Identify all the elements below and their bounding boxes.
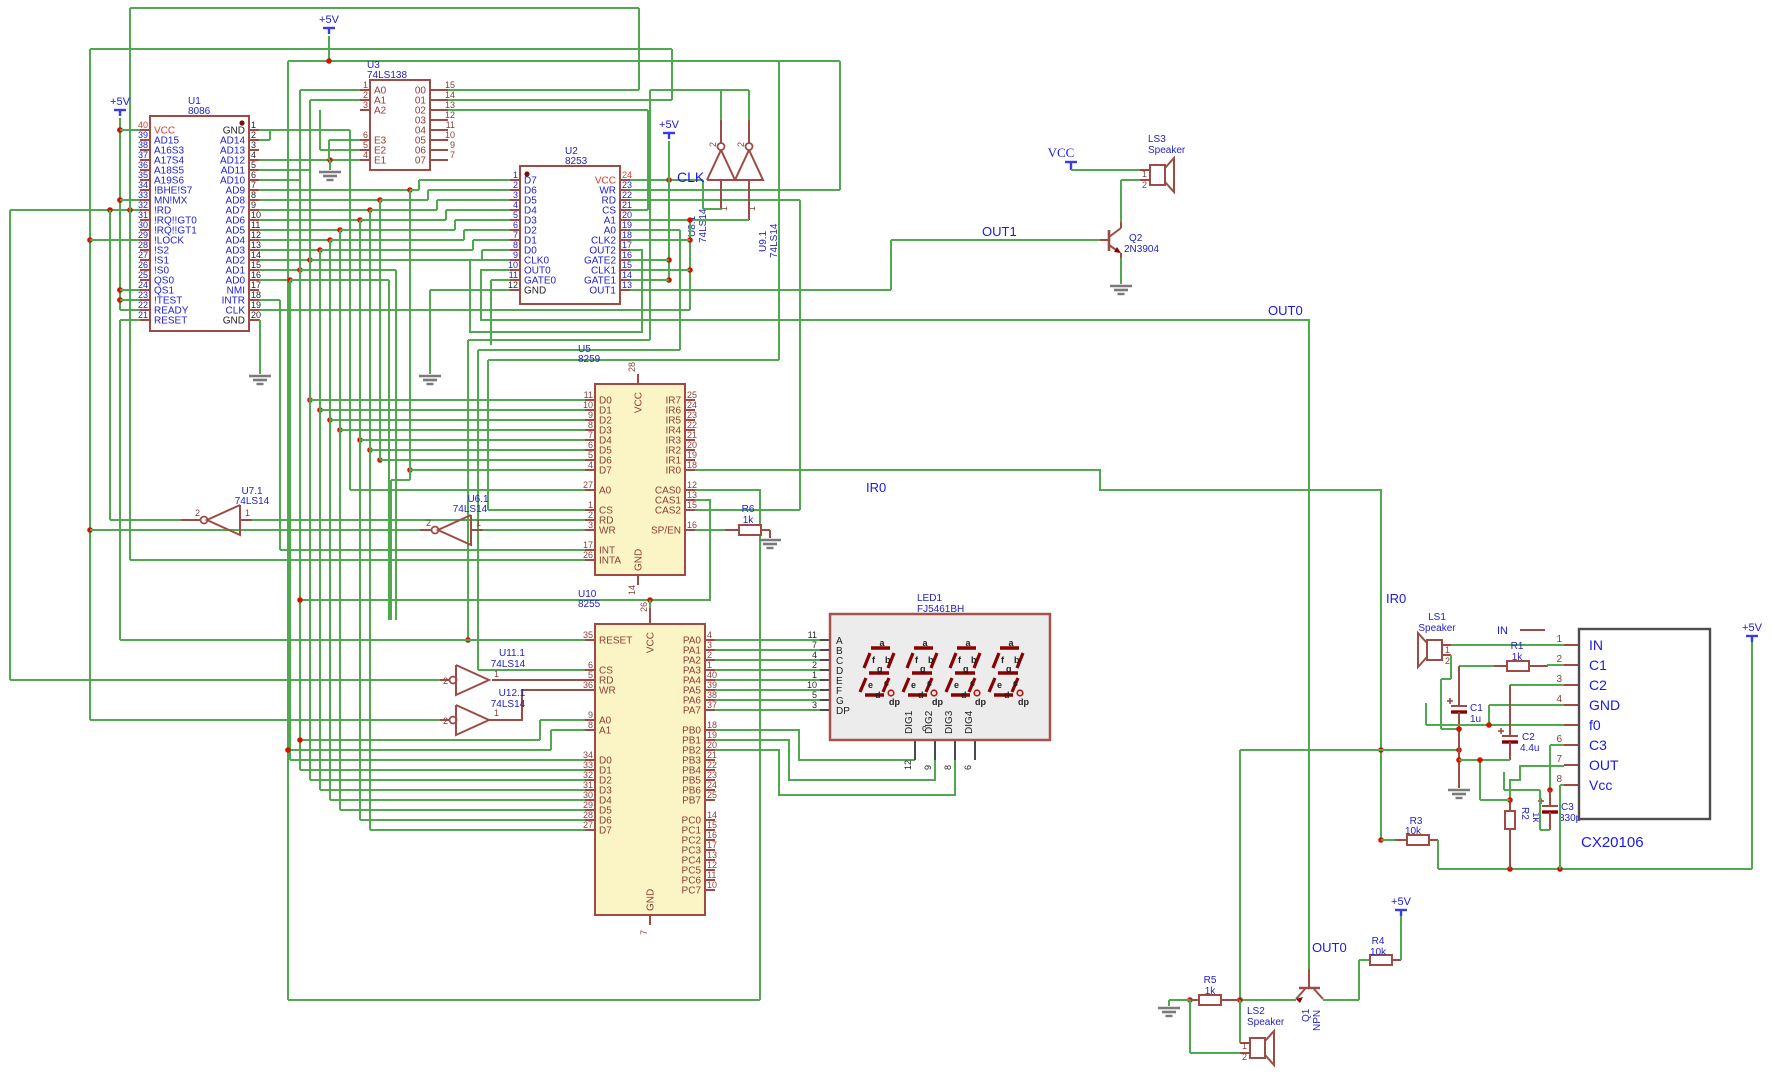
svg-text:+5V: +5V [659, 119, 680, 131]
svg-text:e: e [868, 680, 873, 690]
svg-text:RESET: RESET [599, 636, 632, 647]
svg-text:U9.1: U9.1 [758, 230, 769, 252]
svg-text:31: 31 [138, 210, 148, 220]
svg-text:CLK: CLK [677, 169, 705, 185]
svg-text:3: 3 [513, 190, 518, 200]
svg-text:U11.1: U11.1 [499, 648, 525, 659]
svg-text:IN: IN [1589, 637, 1603, 653]
svg-text:21: 21 [138, 310, 148, 320]
svg-text:+5V: +5V [1742, 622, 1763, 634]
svg-text:3: 3 [812, 700, 817, 710]
svg-text:5: 5 [588, 670, 593, 680]
svg-text:GND: GND [524, 286, 546, 297]
svg-text:2: 2 [707, 650, 712, 660]
svg-text:d: d [875, 690, 881, 700]
svg-text:8: 8 [943, 765, 953, 770]
svg-text:34: 34 [583, 750, 593, 760]
svg-text:c: c [970, 678, 975, 688]
svg-text:VCC: VCC [646, 632, 657, 653]
svg-text:R2: R2 [1519, 807, 1530, 820]
svg-text:21: 21 [622, 200, 632, 210]
svg-text:33: 33 [583, 760, 593, 770]
svg-text:2: 2 [588, 510, 593, 520]
svg-text:LED1: LED1 [917, 593, 942, 604]
svg-text:OUT1: OUT1 [589, 286, 616, 297]
svg-text:f0: f0 [1589, 717, 1601, 733]
svg-text:24: 24 [707, 780, 717, 790]
svg-text:c: c [922, 723, 927, 733]
svg-text:26: 26 [138, 260, 148, 270]
svg-text:c: c [884, 678, 889, 688]
svg-text:7: 7 [812, 640, 817, 650]
svg-text:OUT0: OUT0 [1268, 303, 1303, 318]
svg-text:LS2: LS2 [1247, 1006, 1265, 1017]
svg-text:12: 12 [707, 860, 717, 870]
svg-text:20: 20 [687, 440, 697, 450]
svg-text:27: 27 [583, 480, 593, 490]
svg-text:26: 26 [583, 550, 593, 560]
svg-text:IR0: IR0 [665, 466, 681, 477]
svg-text:DIG3: DIG3 [944, 710, 955, 734]
svg-text:23: 23 [622, 180, 632, 190]
svg-text:23: 23 [707, 770, 717, 780]
svg-text:b: b [971, 655, 977, 665]
svg-text:27: 27 [138, 250, 148, 260]
svg-text:38: 38 [707, 690, 717, 700]
svg-text:Speaker: Speaker [1247, 1017, 1285, 1028]
svg-text:2: 2 [1142, 180, 1147, 190]
svg-text:39: 39 [138, 130, 148, 140]
svg-text:13: 13 [622, 280, 632, 290]
svg-text:GND: GND [1589, 697, 1620, 713]
svg-text:DIG4: DIG4 [964, 710, 975, 734]
svg-text:LS3: LS3 [1148, 134, 1166, 145]
svg-text:2: 2 [708, 142, 718, 147]
svg-text:R1: R1 [1511, 641, 1524, 652]
svg-text:8259: 8259 [578, 354, 601, 365]
svg-text:IR0: IR0 [866, 480, 886, 495]
svg-text:Q1: Q1 [1301, 1008, 1312, 1022]
svg-text:2: 2 [443, 676, 448, 686]
svg-text:2: 2 [251, 130, 256, 140]
svg-text:38: 38 [138, 140, 148, 150]
svg-text:40: 40 [138, 120, 148, 130]
svg-text:13: 13 [707, 850, 717, 860]
svg-text:WR: WR [599, 686, 616, 697]
svg-text:OUT1: OUT1 [982, 224, 1017, 239]
svg-text:8: 8 [513, 240, 518, 250]
svg-text:6: 6 [363, 130, 368, 140]
svg-text:C1: C1 [1589, 657, 1607, 673]
svg-text:32: 32 [138, 200, 148, 210]
svg-text:2: 2 [1556, 654, 1562, 665]
svg-text:2: 2 [1242, 1052, 1247, 1062]
svg-text:17: 17 [622, 240, 632, 250]
svg-text:7: 7 [450, 150, 455, 160]
svg-text:74LS14: 74LS14 [698, 208, 709, 243]
svg-text:29: 29 [138, 230, 148, 240]
svg-text:C2: C2 [1522, 732, 1535, 743]
svg-text:19: 19 [622, 220, 632, 230]
svg-text:11: 11 [446, 120, 455, 130]
svg-text:d: d [1004, 690, 1010, 700]
svg-text:4: 4 [812, 650, 817, 660]
svg-text:5: 5 [363, 140, 368, 150]
svg-text:36: 36 [583, 680, 593, 690]
svg-text:g: g [920, 664, 926, 674]
svg-text:6: 6 [588, 440, 593, 450]
svg-text:Vcc: Vcc [1589, 777, 1612, 793]
svg-text:e: e [997, 680, 1002, 690]
svg-text:24: 24 [138, 280, 148, 290]
svg-text:10: 10 [707, 880, 717, 890]
svg-text:2: 2 [363, 90, 368, 100]
svg-text:2: 2 [736, 142, 746, 147]
svg-text:21: 21 [687, 430, 697, 440]
svg-text:8086: 8086 [188, 106, 211, 117]
svg-text:LS1: LS1 [1428, 612, 1446, 623]
svg-text:25: 25 [138, 270, 148, 280]
svg-text:74LS14: 74LS14 [769, 223, 780, 258]
svg-text:dp: dp [975, 697, 986, 707]
svg-text:12: 12 [445, 110, 455, 120]
svg-text:14: 14 [445, 90, 455, 100]
svg-text:+5V: +5V [319, 14, 340, 26]
svg-text:dp: dp [889, 697, 900, 707]
svg-text:11: 11 [707, 870, 716, 880]
svg-text:15: 15 [687, 500, 697, 510]
svg-text:2: 2 [426, 518, 431, 528]
svg-text:4: 4 [363, 150, 368, 160]
svg-text:6: 6 [513, 220, 518, 230]
svg-text:34: 34 [138, 180, 148, 190]
svg-text:C1: C1 [1470, 703, 1483, 714]
svg-text:b: b [1014, 655, 1020, 665]
svg-text:16: 16 [707, 830, 717, 840]
svg-text:3: 3 [588, 520, 593, 530]
svg-text:4.4u: 4.4u [1520, 743, 1539, 754]
svg-text:18: 18 [251, 290, 261, 300]
svg-text:39: 39 [707, 680, 717, 690]
svg-text:1: 1 [513, 170, 518, 180]
svg-text:A0: A0 [599, 486, 612, 497]
svg-text:10: 10 [508, 260, 518, 270]
svg-text:d: d [918, 690, 924, 700]
svg-text:14: 14 [251, 250, 261, 260]
svg-text:29: 29 [583, 800, 593, 810]
svg-text:+5V: +5V [1391, 896, 1412, 908]
svg-text:E1: E1 [374, 156, 387, 167]
svg-text:5: 5 [251, 160, 256, 170]
svg-text:16: 16 [251, 270, 261, 280]
svg-text:32: 32 [583, 770, 593, 780]
svg-text:4: 4 [1556, 694, 1562, 705]
svg-text:1: 1 [1242, 1041, 1247, 1051]
svg-text:30: 30 [138, 220, 148, 230]
svg-text:74LS14: 74LS14 [453, 504, 488, 515]
svg-text:b: b [928, 655, 934, 665]
svg-text:1: 1 [494, 669, 499, 679]
svg-text:28: 28 [583, 810, 593, 820]
svg-text:23: 23 [687, 410, 697, 420]
svg-text:VCC: VCC [634, 392, 645, 413]
svg-text:18: 18 [707, 720, 717, 730]
svg-text:5: 5 [513, 210, 518, 220]
svg-text:7: 7 [1556, 754, 1562, 765]
svg-text:C2: C2 [1589, 677, 1607, 693]
svg-text:4: 4 [588, 460, 593, 470]
svg-text:10: 10 [583, 400, 593, 410]
svg-text:3: 3 [363, 100, 368, 110]
svg-text:1u: 1u [1470, 714, 1481, 725]
svg-text:dp: dp [932, 697, 943, 707]
svg-text:4: 4 [513, 200, 518, 210]
svg-text:1: 1 [476, 518, 481, 528]
svg-text:CAS2: CAS2 [655, 506, 682, 517]
svg-text:5: 5 [812, 690, 817, 700]
svg-text:1k: 1k [743, 515, 755, 526]
svg-text:INTA: INTA [599, 556, 621, 567]
svg-text:35: 35 [583, 630, 593, 640]
svg-text:14: 14 [707, 810, 717, 820]
svg-text:OUT: OUT [1589, 757, 1619, 773]
svg-text:10k: 10k [1405, 826, 1422, 837]
svg-text:14: 14 [622, 270, 632, 280]
svg-text:07: 07 [415, 156, 427, 167]
svg-text:37: 37 [138, 150, 148, 160]
svg-text:g: g [963, 664, 969, 674]
svg-text:PB7: PB7 [682, 796, 701, 807]
svg-text:21: 21 [707, 750, 717, 760]
svg-text:16: 16 [622, 250, 632, 260]
svg-text:15: 15 [445, 80, 455, 90]
svg-text:GND: GND [223, 316, 245, 327]
svg-text:23: 23 [138, 290, 148, 300]
svg-text:17: 17 [583, 540, 593, 550]
svg-text:2: 2 [1445, 656, 1450, 666]
svg-text:36: 36 [138, 160, 148, 170]
svg-text:33: 33 [138, 190, 148, 200]
svg-text:19: 19 [251, 300, 261, 310]
svg-text:R6: R6 [742, 504, 755, 515]
svg-text:DIG1: DIG1 [904, 710, 915, 734]
svg-text:9: 9 [251, 200, 256, 210]
svg-text:c: c [1013, 678, 1018, 688]
svg-text:9: 9 [513, 250, 518, 260]
svg-text:D7: D7 [599, 466, 612, 477]
svg-text:CX20106: CX20106 [1581, 834, 1644, 851]
svg-text:DP: DP [836, 706, 850, 717]
svg-text:18: 18 [622, 230, 632, 240]
svg-text:13: 13 [445, 100, 455, 110]
svg-text:WR: WR [599, 526, 616, 537]
svg-text:6: 6 [963, 765, 973, 770]
svg-text:7: 7 [251, 180, 256, 190]
svg-text:FJ5461BH: FJ5461BH [917, 604, 964, 615]
svg-text:11: 11 [251, 220, 260, 230]
svg-text:74LS14: 74LS14 [235, 496, 270, 507]
svg-text:C3: C3 [1561, 802, 1574, 813]
svg-text:74LS14: 74LS14 [491, 659, 526, 670]
svg-text:1: 1 [1556, 634, 1562, 645]
svg-text:22: 22 [707, 760, 717, 770]
svg-text:35: 35 [138, 170, 148, 180]
svg-text:VCC: VCC [1048, 145, 1075, 160]
svg-text:+5V: +5V [110, 96, 131, 108]
svg-text:c: c [927, 678, 932, 688]
svg-text:22: 22 [138, 300, 148, 310]
svg-text:22: 22 [622, 190, 632, 200]
svg-text:2: 2 [443, 716, 448, 726]
svg-text:1: 1 [588, 500, 593, 510]
svg-text:2: 2 [812, 660, 817, 670]
svg-text:74LS14: 74LS14 [491, 699, 526, 710]
svg-text:6: 6 [588, 660, 593, 670]
svg-text:1: 1 [1445, 645, 1450, 655]
svg-text:D7: D7 [599, 826, 612, 837]
svg-text:OUT0: OUT0 [1312, 940, 1347, 955]
svg-text:A2: A2 [374, 106, 387, 117]
svg-text:g: g [877, 664, 883, 674]
svg-text:13: 13 [687, 490, 697, 500]
svg-text:1: 1 [363, 80, 368, 90]
svg-text:12: 12 [903, 760, 913, 770]
svg-text:10: 10 [251, 210, 261, 220]
svg-text:11: 11 [584, 390, 593, 400]
svg-text:20: 20 [707, 740, 717, 750]
svg-text:20: 20 [622, 210, 632, 220]
svg-text:R5: R5 [1204, 975, 1217, 986]
svg-text:2: 2 [195, 508, 200, 518]
svg-text:A1: A1 [599, 726, 612, 737]
svg-text:IN: IN [1497, 625, 1508, 637]
svg-text:10: 10 [807, 680, 817, 690]
svg-text:GND: GND [646, 889, 657, 911]
svg-text:8255: 8255 [578, 599, 601, 610]
svg-text:1: 1 [251, 120, 256, 130]
svg-text:Q2: Q2 [1129, 233, 1143, 244]
svg-text:13: 13 [251, 240, 261, 250]
svg-text:11: 11 [808, 630, 817, 640]
svg-text:d: d [961, 690, 967, 700]
svg-text:PA7: PA7 [683, 706, 702, 717]
svg-text:8: 8 [1556, 774, 1562, 785]
svg-text:7: 7 [513, 230, 518, 240]
svg-text:5: 5 [588, 450, 593, 460]
svg-text:8: 8 [588, 720, 593, 730]
svg-text:3: 3 [707, 640, 712, 650]
svg-text:18: 18 [687, 460, 697, 470]
svg-text:37: 37 [707, 700, 717, 710]
svg-text:17: 17 [251, 280, 261, 290]
svg-text:24: 24 [622, 170, 632, 180]
svg-text:28: 28 [627, 362, 637, 372]
svg-text:22: 22 [687, 420, 697, 430]
svg-text:31: 31 [583, 780, 593, 790]
svg-text:IR0: IR0 [1386, 591, 1406, 606]
svg-text:9: 9 [450, 140, 455, 150]
svg-text:4: 4 [251, 150, 256, 160]
svg-text:15: 15 [622, 260, 632, 270]
svg-text:g: g [1006, 664, 1012, 674]
svg-text:11: 11 [509, 270, 518, 280]
svg-text:R4: R4 [1372, 936, 1385, 947]
svg-text:1: 1 [812, 670, 817, 680]
svg-text:PC7: PC7 [682, 886, 702, 897]
svg-text:20: 20 [251, 310, 261, 320]
svg-text:25: 25 [687, 390, 697, 400]
svg-text:15: 15 [707, 820, 717, 830]
svg-text:2N3904: 2N3904 [1124, 244, 1159, 255]
svg-text:U12.1: U12.1 [499, 688, 526, 699]
svg-text:3: 3 [1556, 674, 1562, 685]
svg-text:b: b [885, 655, 891, 665]
svg-text:e: e [954, 680, 959, 690]
svg-text:9: 9 [588, 410, 593, 420]
svg-text:30: 30 [583, 790, 593, 800]
svg-text:C3: C3 [1589, 737, 1607, 753]
svg-text:8: 8 [588, 420, 593, 430]
svg-text:3: 3 [251, 140, 256, 150]
svg-text:1: 1 [707, 660, 712, 670]
svg-text:Speaker: Speaker [1148, 145, 1186, 156]
svg-text:1: 1 [245, 508, 250, 518]
svg-text:1k: 1k [1512, 652, 1524, 663]
svg-text:NPN: NPN [1312, 1010, 1323, 1031]
svg-text:2: 2 [513, 180, 518, 190]
svg-text:25: 25 [707, 790, 717, 800]
svg-text:40: 40 [707, 670, 717, 680]
svg-text:4: 4 [707, 630, 712, 640]
svg-text:19: 19 [707, 730, 717, 740]
svg-text:16: 16 [687, 520, 697, 530]
svg-text:27: 27 [583, 820, 593, 830]
svg-text:24: 24 [687, 400, 697, 410]
svg-text:12: 12 [508, 280, 518, 290]
svg-text:12: 12 [687, 480, 697, 490]
svg-text:1k: 1k [1205, 986, 1217, 997]
svg-text:8253: 8253 [565, 156, 588, 167]
svg-text:10k: 10k [1370, 947, 1387, 958]
svg-text:14: 14 [627, 585, 637, 595]
svg-text:19: 19 [687, 450, 697, 460]
svg-text:6: 6 [1556, 734, 1562, 745]
svg-text:26: 26 [639, 602, 649, 612]
svg-text:RESET: RESET [154, 316, 187, 327]
svg-text:e: e [911, 680, 916, 690]
svg-text:17: 17 [707, 840, 717, 850]
svg-text:GND: GND [634, 549, 645, 571]
svg-text:28: 28 [138, 240, 148, 250]
svg-text:6: 6 [251, 170, 256, 180]
svg-text:7: 7 [588, 430, 593, 440]
svg-text:7: 7 [639, 930, 649, 935]
svg-text:8: 8 [251, 190, 256, 200]
svg-text:Speaker: Speaker [1418, 623, 1456, 634]
svg-text:dp: dp [1018, 697, 1029, 707]
svg-text:15: 15 [251, 260, 261, 270]
svg-text:SP/EN: SP/EN [651, 526, 681, 537]
svg-text:12: 12 [251, 230, 261, 240]
svg-text:9: 9 [588, 710, 593, 720]
svg-text:9: 9 [923, 765, 933, 770]
svg-text:74LS138: 74LS138 [367, 70, 407, 81]
svg-text:10: 10 [445, 130, 455, 140]
svg-text:1: 1 [1142, 169, 1147, 179]
